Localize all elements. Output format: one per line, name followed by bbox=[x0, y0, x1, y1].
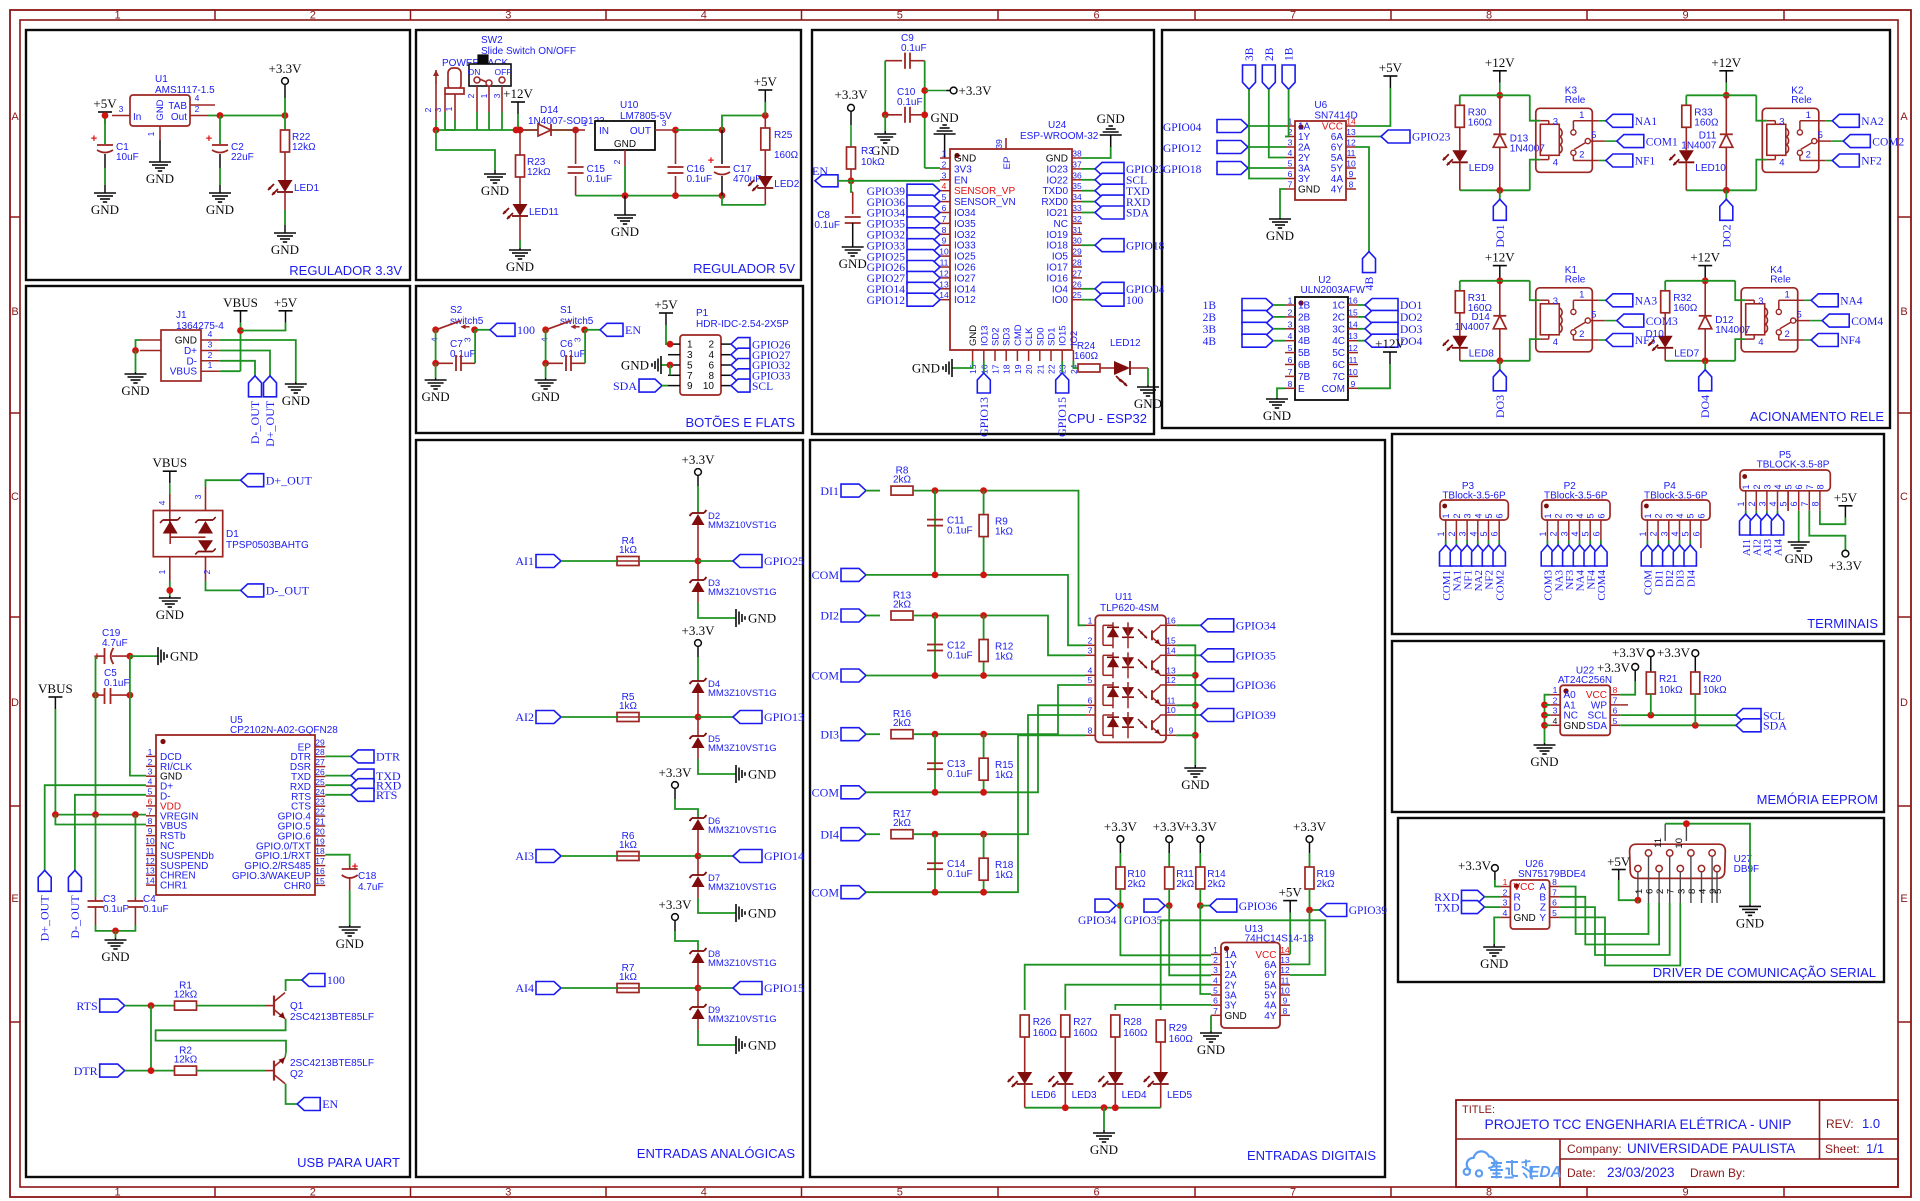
svg-text:4: 4 bbox=[1773, 484, 1783, 489]
resistor R26 bbox=[1020, 1015, 1029, 1037]
svg-text:ULN2003AFW: ULN2003AFW bbox=[1301, 285, 1366, 296]
U5 pin 3 GND bbox=[146, 775, 156, 777]
svg-text:5: 5 bbox=[1552, 908, 1557, 918]
svg-text:+5V: +5V bbox=[1279, 885, 1303, 900]
svg-text:GND: GND bbox=[1263, 408, 1291, 423]
LED LED1 bbox=[278, 180, 293, 192]
diode D11 1N4007 bbox=[1725, 95, 1727, 134]
svg-text:5: 5 bbox=[1686, 513, 1696, 518]
net flag COM bbox=[841, 568, 866, 581]
svg-text:4B: 4B bbox=[1203, 336, 1217, 348]
ground under C6 bbox=[545, 363, 547, 378]
resistor R11 bbox=[1165, 867, 1174, 889]
wire LEDs to ground rail bbox=[1024, 1084, 1026, 1108]
wire RTS to R1 bbox=[125, 1005, 175, 1007]
svg-text:GPIO35: GPIO35 bbox=[1236, 649, 1276, 663]
ground under C3 C4 bbox=[115, 938, 117, 940]
wire GPIO34 node to U13 pin1 bbox=[1120, 906, 1211, 956]
svg-text:2kΩ: 2kΩ bbox=[1317, 879, 1336, 890]
wire 12V bus bbox=[436, 129, 575, 131]
block TERMINAIS outline bbox=[1392, 434, 1884, 634]
wire DTR to R2 bbox=[125, 1070, 175, 1072]
svg-text:+3.3V: +3.3V bbox=[959, 83, 993, 98]
svg-text:EDA: EDA bbox=[1529, 1164, 1562, 1181]
svg-text:17: 17 bbox=[991, 364, 1001, 374]
U6 pin 2 1Y bbox=[1285, 136, 1295, 138]
net flag AI2 bbox=[536, 711, 561, 724]
zener diode D6 MM3Z10VST1G bbox=[692, 817, 704, 819]
U11 channel 1 phototransistor bbox=[1151, 630, 1153, 640]
wire VREGIN row bbox=[55, 814, 146, 816]
svg-text:COM2: COM2 bbox=[1494, 570, 1506, 601]
svg-text:3V3: 3V3 bbox=[954, 164, 972, 175]
svg-text:J1: J1 bbox=[176, 310, 187, 321]
svg-text:10kΩ: 10kΩ bbox=[1703, 685, 1727, 696]
resistor R32 bbox=[1664, 281, 1666, 291]
svg-text:GND: GND bbox=[871, 143, 899, 158]
svg-text:2kΩ: 2kΩ bbox=[1176, 879, 1195, 890]
svg-text:R25: R25 bbox=[774, 130, 793, 141]
net flag GPIO15 bottom bbox=[1061, 361, 1063, 373]
svg-text:+3.3V: +3.3V bbox=[682, 623, 716, 638]
svg-text:2kΩ: 2kΩ bbox=[893, 718, 912, 729]
svg-text:LED8: LED8 bbox=[1469, 348, 1494, 359]
wire R3 to EN node bbox=[850, 169, 852, 181]
svg-text:1B: 1B bbox=[1298, 301, 1311, 312]
ground under C9 C10 bbox=[884, 115, 886, 131]
svg-text:MEMÓRIA EEPROM: MEMÓRIA EEPROM bbox=[1757, 792, 1878, 807]
U24 pin 23 IO15 bbox=[1061, 350, 1063, 361]
svg-text:7: 7 bbox=[1800, 501, 1810, 506]
U24 pin 25 IO0 bbox=[1072, 299, 1082, 301]
svg-text:GPIO39: GPIO39 bbox=[1236, 708, 1276, 722]
net flag NA3 bbox=[1599, 299, 1606, 301]
svg-text:0.1uF: 0.1uF bbox=[587, 174, 613, 185]
wire C19 C5 right vertical to GND pin bbox=[130, 656, 146, 776]
ground sideways at pin 15 bbox=[952, 361, 973, 368]
svg-text:SENSOR_VN: SENSOR_VN bbox=[954, 197, 1016, 208]
svg-text:31: 31 bbox=[1072, 225, 1082, 235]
wire COM2 to U11 pin4 bbox=[1010, 675, 1085, 677]
D1 pin 3 lead bbox=[205, 487, 207, 511]
svg-text:LED4: LED4 bbox=[1122, 1090, 1147, 1101]
wire pin2 to D-_OUT bbox=[206, 581, 241, 590]
svg-text:5: 5 bbox=[1784, 484, 1794, 489]
LED LED9 bbox=[1459, 127, 1461, 150]
net flag COM2 bbox=[1493, 545, 1505, 566]
resistor R12 bbox=[983, 616, 985, 676]
svg-text:27: 27 bbox=[1072, 268, 1082, 278]
svg-text:1: 1 bbox=[1634, 889, 1645, 894]
capacitor C14 bbox=[934, 834, 936, 892]
svg-text:2kΩ: 2kΩ bbox=[1207, 879, 1226, 890]
wire R29 to LED5 bbox=[1160, 1042, 1162, 1072]
svg-text:9: 9 bbox=[942, 236, 947, 246]
U6 pin 11 5A bbox=[1346, 157, 1356, 159]
wire top rail bbox=[1460, 280, 1530, 282]
svg-text:18: 18 bbox=[315, 846, 325, 856]
wire C19 to gnd flag bbox=[126, 653, 133, 660]
U11 pin 13 bbox=[1166, 674, 1176, 676]
wire R13 to node bbox=[913, 615, 1000, 617]
svg-text:6: 6 bbox=[1088, 695, 1093, 705]
svg-text:6: 6 bbox=[1789, 501, 1799, 506]
svg-text:20: 20 bbox=[315, 826, 325, 836]
svg-text:6: 6 bbox=[148, 796, 153, 806]
svg-text:Rele: Rele bbox=[1770, 274, 1791, 285]
ground under LED12 bbox=[1147, 385, 1149, 387]
svg-text:MM3Z10VST1G: MM3Z10VST1G bbox=[708, 882, 777, 893]
svg-text:1: 1 bbox=[1638, 531, 1648, 536]
net flag D+_OUT at U5 bbox=[38, 870, 51, 891]
svg-text:Rele: Rele bbox=[1565, 95, 1586, 106]
U24 pin 36 IO22 bbox=[1072, 179, 1082, 181]
net flag DO1 bbox=[1499, 190, 1501, 199]
ground under LEDs bbox=[1103, 1130, 1105, 1133]
resistor R18 bbox=[983, 834, 985, 892]
U5 pin 17 GPIO.2/RS485 bbox=[315, 865, 325, 867]
ground under C2 bbox=[219, 185, 221, 193]
wire pin24 to R24 bbox=[1073, 361, 1078, 368]
svg-text:2: 2 bbox=[1752, 484, 1762, 489]
svg-text:R27: R27 bbox=[1073, 1017, 1092, 1028]
svg-text:GND: GND bbox=[336, 936, 364, 951]
wire R28 to LED4 bbox=[1114, 1037, 1116, 1072]
net flag DI2 bbox=[1663, 545, 1675, 566]
U11 pin 1 bbox=[1085, 624, 1095, 626]
svg-text:9: 9 bbox=[148, 826, 153, 836]
U27 pin 4 bbox=[1698, 865, 1704, 871]
U13 pin 13 6A bbox=[1280, 964, 1290, 966]
D1 right lower diode bbox=[198, 540, 213, 551]
svg-text:2: 2 bbox=[148, 757, 153, 767]
K1 coil pin 3 bbox=[1530, 281, 1541, 300]
svg-text:2: 2 bbox=[1213, 955, 1218, 965]
svg-text:1: 1 bbox=[1741, 484, 1751, 489]
svg-text:CHR0: CHR0 bbox=[284, 881, 312, 892]
svg-text:ENTRADAS ANALÓGICAS: ENTRADAS ANALÓGICAS bbox=[637, 1146, 796, 1161]
svg-text:B: B bbox=[11, 306, 18, 318]
svg-text:160Ω: 160Ω bbox=[1468, 117, 1493, 128]
svg-text:5: 5 bbox=[897, 10, 903, 22]
U24 pin 30 IO18 bbox=[1072, 244, 1082, 246]
wire RTS node to DTR node bbox=[150, 1006, 152, 1071]
U27 pin 7 bbox=[1667, 850, 1673, 856]
svg-text:IO5: IO5 bbox=[1052, 252, 1069, 263]
svg-text:+: + bbox=[708, 155, 714, 167]
svg-text:RTS: RTS bbox=[376, 788, 397, 802]
net flag DI4 bbox=[1684, 545, 1696, 566]
net flag NA3 bbox=[1552, 545, 1564, 566]
svg-text:D: D bbox=[1900, 697, 1908, 709]
svg-text:3: 3 bbox=[1676, 889, 1687, 894]
svg-text:3: 3 bbox=[148, 767, 153, 777]
svg-text:0.1uF: 0.1uF bbox=[560, 349, 586, 360]
wire 2B to 2Y bbox=[1269, 89, 1285, 157]
svg-text:4: 4 bbox=[701, 1187, 707, 1199]
svg-text:34: 34 bbox=[1072, 192, 1082, 202]
U5 pin 8 VBUS bbox=[146, 825, 156, 827]
U11 pin 14 bbox=[1166, 654, 1176, 656]
svg-text:GPIO34: GPIO34 bbox=[1236, 619, 1276, 633]
wire to ground bbox=[698, 898, 736, 913]
wire R19 to node bbox=[1309, 889, 1311, 910]
svg-text:EP: EP bbox=[1002, 157, 1013, 170]
svg-text:GND: GND bbox=[282, 393, 310, 408]
svg-text:6: 6 bbox=[1691, 531, 1701, 536]
U24 pin 26 IO4 bbox=[1072, 288, 1082, 290]
svg-text:3: 3 bbox=[492, 93, 502, 98]
svg-text:4: 4 bbox=[701, 10, 707, 22]
node junction VBUS bbox=[237, 327, 244, 334]
U22 VCC to +3.3V bbox=[1620, 681, 1635, 694]
svg-text:TAB: TAB bbox=[168, 101, 187, 112]
U13 pin 11 5A bbox=[1280, 984, 1290, 986]
U6 pin 9 4A bbox=[1346, 178, 1356, 180]
resistor R3 bbox=[847, 147, 856, 169]
net flag GPIO36 at U11 bbox=[1176, 684, 1200, 686]
net flag NF3 bbox=[1599, 339, 1606, 341]
node junction top bbox=[1496, 277, 1503, 284]
zener diode D4 MM3Z10VST1G bbox=[692, 680, 704, 682]
svg-text:100: 100 bbox=[517, 323, 535, 337]
svg-text:SDA: SDA bbox=[613, 379, 637, 393]
svg-text:2B: 2B bbox=[1264, 47, 1276, 61]
svg-text:COM4: COM4 bbox=[1851, 316, 1883, 328]
wire top rail bbox=[1460, 94, 1530, 96]
power +3.3V for R19 bbox=[1306, 836, 1313, 843]
svg-text:2: 2 bbox=[310, 1187, 316, 1199]
net flag COM1 bbox=[1440, 545, 1452, 566]
svg-text:3: 3 bbox=[942, 170, 947, 180]
svg-text:IO27: IO27 bbox=[954, 273, 976, 284]
svg-text:5: 5 bbox=[1591, 310, 1596, 321]
svg-text:11: 11 bbox=[1349, 355, 1358, 365]
svg-text:1: 1 bbox=[583, 118, 588, 128]
net flag GPIO34 node bbox=[1116, 905, 1120, 907]
wire GND pin 4 to ground bbox=[220, 340, 296, 382]
net flag NA1 bbox=[1450, 545, 1462, 566]
ground at DB9 bbox=[1749, 904, 1751, 906]
svg-text:0.1uF: 0.1uF bbox=[947, 769, 973, 780]
net flag COM bbox=[841, 886, 866, 899]
svg-text:8: 8 bbox=[1687, 889, 1698, 894]
wire LED2 to rail bbox=[764, 188, 766, 205]
svg-text:LED10: LED10 bbox=[1695, 163, 1726, 174]
K1 coil bbox=[1540, 304, 1559, 335]
svg-text:17: 17 bbox=[315, 856, 325, 866]
svg-text:5: 5 bbox=[1288, 159, 1293, 169]
svg-text:8: 8 bbox=[1288, 379, 1293, 389]
svg-text:0.1uF: 0.1uF bbox=[901, 43, 927, 54]
net flag NA4 bbox=[1573, 545, 1585, 566]
svg-text:3: 3 bbox=[662, 118, 667, 128]
svg-text:PROJETO TCC ENGENHARIA ELÉTRIC: PROJETO TCC ENGENHARIA ELÉTRICA - UNIP bbox=[1485, 1116, 1792, 1132]
U5 pin 27 DSR bbox=[315, 766, 325, 768]
svg-text:4: 4 bbox=[1570, 531, 1580, 536]
U13 pin 4 2Y bbox=[1211, 984, 1221, 986]
svg-text:IO35: IO35 bbox=[954, 219, 976, 230]
U2 pin 16 1C bbox=[1348, 304, 1358, 306]
svg-text:2: 2 bbox=[708, 340, 714, 351]
svg-text:160Ω: 160Ω bbox=[1033, 1028, 1058, 1039]
U24 pin 4 SENSOR_VP bbox=[940, 190, 950, 192]
svg-text:EN: EN bbox=[954, 175, 968, 186]
U22 pin 6 SCL bbox=[1610, 714, 1620, 716]
resistor R23 bbox=[516, 155, 525, 177]
ground right of J1 bbox=[295, 382, 297, 384]
J1 pin 1 VBUS bbox=[201, 370, 220, 372]
ground AI3 channel bbox=[735, 904, 737, 922]
U11 pin 4 bbox=[1085, 674, 1095, 676]
net flag DO3 bbox=[1499, 361, 1501, 370]
node junction bbox=[695, 558, 702, 565]
svg-text:470uF: 470uF bbox=[733, 174, 761, 185]
pin 2 Out bbox=[190, 115, 208, 117]
svg-text:A: A bbox=[1900, 111, 1908, 123]
svg-text:Q1: Q1 bbox=[290, 1001, 304, 1012]
P1 pin 1 bbox=[668, 343, 680, 345]
svg-text:1N4007: 1N4007 bbox=[1455, 322, 1490, 333]
U5 pin 28 DTR bbox=[315, 756, 325, 758]
U2 pin 5 5B bbox=[1285, 352, 1295, 354]
net flag COM2 bbox=[1831, 140, 1843, 142]
svg-text:2: 2 bbox=[310, 10, 316, 22]
svg-text:IO21: IO21 bbox=[1046, 208, 1068, 219]
svg-text:1/1: 1/1 bbox=[1866, 1141, 1884, 1156]
power +3.3V terminal for AI1 bbox=[695, 469, 702, 476]
svg-text:2Y: 2Y bbox=[1298, 153, 1311, 164]
svg-text:SDA: SDA bbox=[1763, 719, 1787, 733]
power +3.3V for R11 bbox=[1166, 836, 1173, 843]
svg-text:IO23: IO23 bbox=[1046, 164, 1068, 175]
U11 channel 3 LED pair bbox=[1102, 685, 1104, 705]
svg-text:3: 3 bbox=[1553, 296, 1558, 307]
svg-text:GND: GND bbox=[1134, 396, 1162, 411]
svg-text:23/03/2023: 23/03/2023 bbox=[1607, 1165, 1675, 1180]
svg-text:Rele: Rele bbox=[1565, 274, 1586, 285]
node junction bbox=[695, 985, 702, 992]
svg-text:2: 2 bbox=[1447, 531, 1457, 536]
resistor R22 bbox=[281, 130, 290, 152]
net flag GPIO14 bbox=[907, 282, 940, 295]
D1 pin 4 lead bbox=[169, 494, 171, 523]
svg-text:+5V: +5V bbox=[274, 295, 298, 310]
U5 pin 25 RXD bbox=[315, 785, 325, 787]
svg-text:3: 3 bbox=[1088, 645, 1093, 655]
svg-text:4A: 4A bbox=[1331, 174, 1344, 185]
U6 pin 14 VCC bbox=[1346, 125, 1356, 127]
node junction bbox=[695, 714, 702, 721]
net flag D-_OUT at D1 bbox=[241, 584, 264, 597]
U13 pin 2 1Y bbox=[1211, 964, 1221, 966]
net flag NA4 bbox=[1804, 299, 1811, 301]
svg-text:IO32: IO32 bbox=[954, 230, 976, 241]
U26 pin 5 Y bbox=[1550, 916, 1560, 918]
net flag NA1 bbox=[1599, 120, 1606, 122]
power +3.3V for R14 bbox=[1197, 836, 1204, 843]
net flag GPIO04 bbox=[1217, 120, 1248, 133]
U26 pin 6 Z bbox=[1550, 906, 1560, 908]
U11 pin 9 bbox=[1166, 734, 1176, 736]
svg-text:1: 1 bbox=[148, 747, 153, 757]
svg-text:26: 26 bbox=[315, 767, 325, 777]
svg-text:4: 4 bbox=[1768, 501, 1778, 506]
svg-text:7: 7 bbox=[148, 806, 153, 816]
U22 pin 1 A0 bbox=[1550, 694, 1560, 696]
resistor R9 bbox=[983, 491, 985, 575]
U6 pin 4 2Y bbox=[1285, 157, 1295, 159]
svg-text:7: 7 bbox=[1290, 10, 1296, 22]
svg-text:3: 3 bbox=[1758, 296, 1763, 307]
wire VBUS pin bbox=[220, 370, 241, 372]
U24 pin 8 IO32 bbox=[940, 233, 950, 235]
pin 39 EP bbox=[1005, 138, 1007, 149]
pin 1 GND down bbox=[159, 126, 161, 140]
svg-text:5: 5 bbox=[1779, 501, 1789, 506]
svg-text:10: 10 bbox=[1674, 838, 1685, 849]
U2 pin 6 6B bbox=[1285, 364, 1295, 366]
svg-text:DO2: DO2 bbox=[1719, 224, 1733, 247]
J1 pin 2 D- bbox=[201, 360, 220, 362]
ground under U1 bbox=[159, 158, 161, 162]
svg-text:11: 11 bbox=[1347, 148, 1356, 158]
wire GPIO39 node to U13 pin13 bbox=[1290, 910, 1310, 964]
svg-text:1kΩ: 1kΩ bbox=[619, 701, 638, 712]
svg-text:4: 4 bbox=[1553, 337, 1558, 348]
U11 pin 6 bbox=[1085, 704, 1095, 706]
U5 pin 21 GPIO.5 bbox=[315, 825, 325, 827]
svg-text:+12V: +12V bbox=[1375, 336, 1405, 351]
wire U2 E pin to ground bbox=[1277, 388, 1285, 398]
wire U6 GND pin7 to ground bbox=[1280, 189, 1285, 218]
svg-text:+12V: +12V bbox=[1485, 55, 1515, 70]
U6 pin 7 GND bbox=[1285, 188, 1295, 190]
svg-text:11: 11 bbox=[1653, 838, 1664, 848]
J1 pin 4 GND bbox=[201, 339, 220, 341]
wire COM1 to U11 pin2 bbox=[1010, 575, 1085, 645]
wire D+ pin to D+_OUT flag bbox=[220, 351, 270, 376]
D1 pin 1 lead bbox=[169, 557, 171, 581]
wire GPIO35 node to U13 pin3 bbox=[1169, 906, 1211, 976]
wire R27 to pin4 bbox=[1065, 985, 1211, 1010]
svg-text:DO4: DO4 bbox=[1698, 395, 1712, 418]
svg-text:0.1uF: 0.1uF bbox=[947, 526, 973, 537]
svg-text:3B: 3B bbox=[1203, 324, 1217, 336]
svg-text:1: 1 bbox=[1538, 531, 1548, 536]
svg-text:COM: COM bbox=[812, 669, 840, 683]
svg-text:10kΩ: 10kΩ bbox=[861, 157, 885, 168]
U27 pin leads downward bbox=[1637, 872, 1639, 903]
ground under C1 bbox=[104, 185, 106, 193]
svg-text:DI4: DI4 bbox=[820, 827, 839, 841]
svg-text:2kΩ: 2kΩ bbox=[893, 600, 912, 611]
block ENTRADAS ANALOGICAS outline bbox=[416, 440, 803, 1177]
U5 pin 10 NC bbox=[146, 845, 156, 847]
svg-text:AI2: AI2 bbox=[515, 710, 534, 724]
wire D- pin to flag bbox=[75, 795, 146, 871]
svg-text:1kΩ: 1kΩ bbox=[995, 652, 1014, 663]
svg-text:SDA: SDA bbox=[1126, 208, 1150, 220]
U11 pin 2 bbox=[1085, 644, 1095, 646]
net flag GPIO23 at U6 bbox=[1356, 136, 1381, 138]
ground under U22 bbox=[1544, 743, 1546, 745]
wire COM3 to U11 pin6 bbox=[1010, 705, 1085, 792]
svg-text:4: 4 bbox=[1698, 889, 1709, 894]
wire U1 In bbox=[112, 115, 130, 117]
svg-text:0.1uF: 0.1uF bbox=[814, 220, 840, 231]
node junction at +3.3V bbox=[282, 112, 289, 119]
